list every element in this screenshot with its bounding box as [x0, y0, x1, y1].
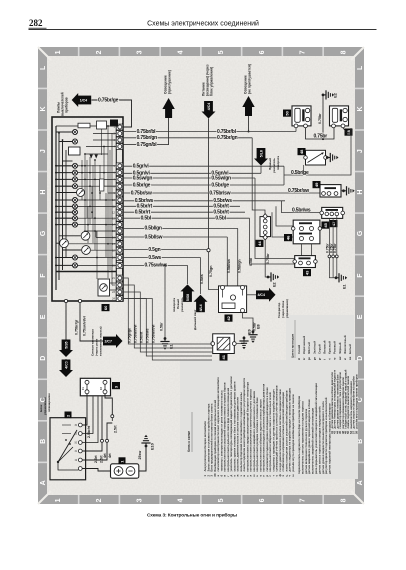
oil pressure tell-tale U43: [295, 256, 316, 268]
svg-text:поворота: поворота: [172, 298, 176, 312]
svg-text:58: 58: [354, 431, 358, 434]
tag 50: [283, 110, 291, 117]
pin strip header tag: [110, 120, 118, 127]
tag 1: [119, 457, 126, 464]
svg-text:8: 8: [340, 50, 347, 54]
connector arrow up C: [242, 96, 254, 116]
svg-text:H: H: [40, 190, 47, 195]
svg-text:0.75br: 0.75br: [314, 134, 328, 140]
svg-text:0.75br/sw: 0.75br/sw: [209, 190, 230, 196]
wire 0.75sw/rt/vi: [123, 285, 212, 348]
wire 0.75br/gr from cluster: [65, 303, 67, 340]
svg-text:43: 43: [304, 270, 309, 275]
dimmer rheostat U48: [306, 150, 326, 165]
ground E8b: [239, 337, 248, 350]
wire 0.5ws drop: [200, 258, 202, 295]
svg-text:4: 4: [177, 50, 184, 54]
svg-text:G: G: [357, 230, 364, 236]
svg-text:Синий: Синий: [297, 345, 301, 354]
tag 3: [112, 382, 120, 389]
svg-text:F: F: [357, 273, 364, 278]
wires 0.75br down from switches to E1: [329, 218, 336, 277]
svg-text:L: L: [357, 65, 364, 70]
svg-text:4/C4: 4/C4: [258, 293, 265, 297]
svg-text:1/C4: 1/C4: [80, 98, 87, 102]
svg-text:разъём жгута проводов панели п: разъём жгута проводов панели приборов: [354, 374, 358, 429]
svg-text:K: K: [40, 106, 47, 111]
svg-text:(приглушение): (приглушение): [168, 70, 172, 94]
svg-text:0.5sw/gn: 0.5sw/gn: [133, 175, 153, 181]
svg-text:5: 5: [218, 498, 225, 502]
ignition switch U2: [50, 418, 86, 480]
wire 0.5gr/vi: [123, 165, 284, 167]
resistor in cluster: [78, 123, 90, 128]
svg-text:приборов: приборов: [65, 97, 69, 113]
connector block in cluster: [97, 121, 107, 129]
svg-text:0.75br: 0.75br: [333, 243, 337, 253]
svg-text:0.75gn/bl: 0.75gn/bl: [137, 142, 158, 148]
ground E2 mid: [267, 272, 280, 281]
tag 43: [303, 269, 311, 276]
key to diagram legend: [180, 360, 358, 479]
svg-text:Белый: Белый: [348, 344, 352, 354]
brake fluid switch U47: [322, 207, 343, 218]
svg-text:A: A: [40, 480, 47, 485]
svg-text:0.75br: 0.75br: [318, 113, 322, 124]
ground E1 left: [160, 337, 169, 350]
instrument illumination lamp block U50: [292, 106, 311, 126]
wire 0.5bl/sw: [123, 236, 227, 238]
svg-text:Коричневый: Коричневый: [302, 336, 306, 354]
svg-text:6: 6: [259, 498, 266, 502]
svg-text:0.75rt/ws: 0.75rt/ws: [146, 328, 150, 343]
svg-text:регулятор яркости подсветки пр: регулятор яркости подсветки приборов и в…: [324, 397, 328, 474]
connector arrow down 4/C5: [59, 370, 73, 377]
tag 60: [102, 304, 110, 311]
wire 0.5gn/vi: [123, 172, 261, 174]
svg-text:6: 6: [259, 50, 266, 54]
svg-text:0.5br/ws: 0.5br/ws: [292, 208, 311, 214]
connector arrow right 4/C4 generator: [269, 288, 276, 302]
connector arrow up left-turn 5/S8: [181, 284, 195, 291]
wire 0.75rt/ws: [123, 299, 212, 357]
svg-text:B: B: [357, 439, 364, 444]
svg-text:0.75sw/rt/vi: 0.75sw/rt/vi: [134, 325, 138, 343]
svg-text:3: 3: [137, 50, 144, 54]
wire 0.5br/ws to switch 49b: [282, 201, 322, 213]
wire 0.5br/rt: [123, 211, 245, 213]
svg-text:F: F: [40, 273, 47, 278]
wire 0.5bl/sw drop to flasher: [226, 237, 228, 286]
wire 0.75br/sw: [123, 192, 321, 194]
svg-text:50: 50: [284, 110, 289, 115]
tag 2: [65, 412, 72, 419]
svg-text:поворота: поворота: [276, 156, 280, 170]
wire 0.75sw/rt/vi: [123, 299, 212, 361]
tag 41: [220, 353, 228, 360]
svg-text:60: 60: [103, 305, 108, 310]
connector arrow up A: [162, 98, 174, 118]
svg-text:2.5rt: 2.5rt: [113, 425, 117, 433]
svg-text:B: B: [40, 439, 47, 444]
svg-text:Лиловый: Лиловый: [323, 340, 327, 354]
svg-text:управления): управления): [285, 299, 289, 318]
wire drop to right turn arrow: [260, 166, 262, 174]
svg-text:Жёлтый: Жёлтый: [307, 342, 311, 355]
svg-text:0.5ws: 0.5ws: [200, 274, 204, 284]
svg-text:2.5br/rt: 2.5br/rt: [87, 425, 91, 438]
wire from arrow B down to flasher: [208, 119, 210, 249]
turn signal flasher relay U42: [219, 286, 247, 313]
svg-text:gn: gn: [312, 357, 316, 361]
svg-text:0.5bl/gn: 0.5bl/gn: [237, 259, 241, 273]
svg-text:E2: E2: [273, 282, 277, 287]
svg-text:0.5bl/gn: 0.5bl/gn: [145, 226, 162, 232]
svg-text:E1: E1: [343, 284, 347, 289]
instrument cluster box U60: [52, 117, 123, 301]
svg-text:E2: E2: [334, 93, 338, 98]
svg-text:Схемы электрических соединений: Схемы электрических соединений: [147, 20, 259, 28]
svg-text:E10: E10: [151, 443, 155, 450]
wire ignition to battery: [82, 469, 111, 472]
tag 47: [330, 220, 338, 227]
wire battery to ground E10 25sw: [139, 446, 146, 471]
tag 46: [284, 234, 292, 241]
svg-text:0.5ws: 0.5ws: [148, 255, 161, 261]
wire 0.75sw/ws: [123, 264, 188, 266]
svg-text:0.5br/ge: 0.5br/ge: [133, 182, 151, 188]
wire 0.5bl/gn drop to flasher: [237, 228, 239, 286]
wire 0.5rs/rt: [123, 292, 212, 352]
diagram border frame: [38, 47, 364, 504]
svg-text:блок управления): блок управления): [210, 67, 214, 96]
cluster internal wiring: [55, 126, 57, 290]
gauge: tachometer: [81, 231, 90, 240]
ground at U49b: [342, 186, 355, 195]
wire 0.75gr/ge: [123, 278, 212, 344]
svg-text:1: 1: [55, 50, 62, 54]
series resistor vertical: [100, 179, 104, 191]
svg-text:L: L: [40, 65, 47, 70]
svg-text:0.5gn: 0.5gn: [148, 247, 160, 253]
wire sender to ground E8b: [236, 336, 244, 344]
wire 0.5br/rt drops to handbrake switch: [276, 206, 297, 226]
svg-text:4: 4: [177, 498, 184, 502]
svg-text:0.5sw/gn: 0.5sw/gn: [211, 175, 231, 181]
ignition feed wires: [82, 397, 93, 434]
wire 0.5br/ge: [123, 184, 284, 186]
svg-text:0.5bl: 0.5bl: [215, 216, 226, 222]
ground E8: [248, 330, 257, 343]
svg-text:7: 7: [300, 498, 307, 502]
svg-text:датчик аварийного уровня тормо: датчик аварийного уровня тормозной жидко…: [307, 399, 311, 474]
svg-text:3: 3: [137, 498, 144, 502]
svg-text:выключатель аварийной световой: выключатель аварийной световой сигнализа…: [311, 408, 315, 474]
svg-text:46: 46: [285, 235, 290, 240]
tag 44: [256, 240, 264, 247]
svg-text:0.75br/gn: 0.75br/gn: [137, 135, 158, 141]
wire 0.75br joining lamp blocks: [306, 128, 335, 139]
svg-text:44: 44: [257, 241, 262, 246]
svg-text:0.75br/ge: 0.75br/ge: [98, 97, 119, 103]
svg-text:G: G: [40, 230, 47, 236]
svg-text:E: E: [357, 314, 364, 319]
svg-text:4/C5: 4/C5: [65, 361, 69, 368]
svg-text:2/C7: 2/C7: [105, 339, 112, 343]
warning lamps: [73, 130, 78, 135]
svg-text:0.75br/sw: 0.75br/sw: [131, 190, 152, 196]
connector arrow down B: [202, 112, 216, 119]
svg-text:25sw: 25sw: [138, 451, 142, 460]
cluster bottom pins: [64, 299, 67, 302]
svg-text:D: D: [40, 356, 47, 361]
wire 0.5br/rt: [123, 205, 240, 207]
svg-text:E9: E9: [248, 329, 252, 334]
svg-text:0.75sw/ws: 0.75sw/ws: [145, 263, 168, 269]
svg-text:J: J: [40, 149, 47, 153]
svg-text:0.75gn: 0.75gn: [209, 266, 213, 277]
connector 0.5gn/0.75gn: [209, 252, 221, 290]
svg-text:Чёрный: Чёрный: [338, 342, 342, 354]
side light block U49: [330, 106, 349, 126]
fuse box U3: [80, 378, 110, 396]
svg-text:Фиолетовый: Фиолетовый: [343, 335, 347, 354]
tail lamp switch U49b: [320, 185, 341, 197]
diode pair: [90, 155, 98, 159]
svg-text:топливного насоса): топливного насоса): [99, 326, 103, 356]
svg-text:Схема 3: Контрольные огни и пр: Схема 3: Контрольные огни и приборы: [147, 512, 237, 519]
svg-text:0.75br/bl: 0.75br/bl: [217, 129, 237, 135]
svg-text:0.5bl: 0.5bl: [141, 216, 152, 222]
svg-text:разъём жгута проводов комбинац: разъём жгута проводов комбинации приборо…: [291, 394, 295, 471]
svg-text:Цвета проводов: Цвета проводов: [291, 334, 295, 358]
wire 0.5bl drop: [250, 218, 295, 264]
wire 0.75br/gn: [123, 137, 252, 139]
svg-text:освещением: освещением: [47, 393, 51, 412]
svg-text:2: 2: [96, 50, 103, 54]
wire 0.5ws: [123, 257, 201, 259]
svg-text:48: 48: [299, 149, 304, 154]
wire 0.5bl/gn: [123, 227, 238, 229]
svg-text:Красный: Красный: [328, 341, 332, 354]
wire 0.5sw/gn: [123, 177, 255, 179]
svg-text:ge: ge: [307, 357, 311, 361]
svg-text:(не приглушается): (не приглушается): [248, 64, 252, 94]
wire 0.75sw/ws drop: [187, 265, 189, 284]
svg-text:2: 2: [96, 498, 103, 502]
wire fuse to ignition 2.5br/rt: [82, 394, 87, 425]
voltage stabilizer block with meter: [98, 279, 110, 296]
svg-text:2.5rt: 2.5rt: [94, 455, 98, 463]
svg-text:переключатель наружного света: переключатель наружного света фар на пан…: [297, 396, 301, 474]
svg-text:282: 282: [29, 18, 43, 28]
wire from U44 to ground E2 mid: [265, 240, 268, 277]
svg-text:Зелёный: Зелёный: [312, 341, 316, 354]
wire 0.5br/ge segment: [284, 128, 351, 175]
svg-text:0.75gr/ge: 0.75gr/ge: [128, 328, 132, 343]
connector arrow right 2/C7 tach: [116, 334, 123, 348]
wire 0.75br to E2: [322, 95, 324, 139]
wire 0.5br/ws: [123, 200, 285, 202]
svg-text:0.5br/ge: 0.5br/ge: [211, 182, 229, 188]
connector arrow 1/C4: [72, 93, 79, 107]
wire from arrow A to pin: [123, 118, 169, 145]
svg-text:45: 45: [323, 222, 328, 227]
svg-text:7: 7: [300, 50, 307, 54]
wires U46 to U43: [301, 244, 303, 256]
svg-text:E8: E8: [257, 324, 261, 329]
svg-text:датчик износа тормозных колодо: датчик износа тормозных колодок передних…: [317, 405, 321, 474]
wire 0.75sw/vi from cluster: [80, 303, 107, 341]
svg-text:0.5rs/rt: 0.5rs/rt: [140, 331, 144, 343]
wire 0.75br/bl: [123, 131, 296, 133]
wire colour code table: [286, 315, 354, 363]
svg-text:4rt: 4rt: [108, 453, 112, 458]
svg-text:0.75br/sw: 0.75br/sw: [288, 188, 309, 194]
voltage stabilizer: [69, 147, 81, 155]
svg-text:0.5br: 0.5br: [159, 322, 163, 331]
svg-text:0.75br: 0.75br: [266, 253, 270, 264]
wire 0.5bl: [123, 217, 250, 219]
wire 0.5gr/vi to rheostat area: [283, 166, 285, 175]
tag 58: [345, 129, 353, 136]
svg-text:D: D: [357, 356, 364, 361]
svg-text:0.5gr/vi: 0.5gr/vi: [133, 164, 150, 170]
svg-text:J: J: [357, 149, 364, 153]
wire 0.75br/ge: [92, 100, 132, 123]
svg-text:5: 5: [218, 50, 225, 54]
svg-text:1: 1: [55, 498, 62, 502]
tag 42: [225, 315, 233, 322]
wire flasher to ground E8: [243, 313, 254, 332]
svg-text:0.75sw/vi/vi: 0.75sw/vi/vi: [83, 316, 87, 336]
handbrake switch U46: [293, 220, 320, 244]
svg-text:реле-прерыватель указателей по: реле-прерыватель указателей поворота и а…: [314, 383, 318, 474]
ground E10: [141, 435, 150, 448]
wire riser to lamp block U50: [295, 128, 297, 132]
ground E1 right: [335, 273, 348, 282]
cluster connector pin strip: [115, 123, 117, 301]
ground at rheostat: [326, 153, 339, 162]
header rule: [29, 29, 377, 30]
wire 0.5gn: [123, 249, 207, 251]
connector arrow down 5/S5: [59, 350, 73, 357]
svg-text:4/L4: 4/L4: [199, 304, 203, 311]
svg-text:E: E: [40, 314, 47, 319]
svg-text:0.5bl/sw: 0.5bl/sw: [145, 234, 163, 240]
gauge: speedometer: [60, 239, 69, 248]
svg-text:Серый: Серый: [317, 344, 321, 354]
tag 45: [322, 222, 330, 229]
tag 48: [298, 148, 306, 155]
svg-text:49: 49: [314, 182, 319, 187]
svg-text:8: 8: [340, 498, 347, 502]
wire 0.5br/ge riser: [283, 175, 285, 185]
connector arrow up high-beam 4/L4: [194, 295, 208, 302]
svg-text:0.75br/gr: 0.75br/gr: [74, 319, 78, 335]
svg-text:H: H: [357, 190, 364, 195]
svg-text:K: K: [357, 106, 364, 111]
svg-text:0.75br/gn: 0.75br/gn: [217, 135, 238, 141]
svg-text:41: 41: [221, 354, 226, 359]
parking light switch U44: [260, 217, 271, 237]
connector arrow down right-turn 5/L8: [254, 159, 268, 166]
svg-text:0.5bl: 0.5bl: [249, 258, 253, 266]
wire drop 0.5sw/gn: [255, 178, 295, 259]
wire to ground E1 left: [164, 265, 166, 338]
battery U1: [111, 464, 139, 478]
oil pressure sender U41: [213, 334, 235, 354]
tag 49: [313, 181, 321, 188]
svg-text:5/L8: 5/L8: [260, 150, 264, 157]
svg-text:4rt: 4rt: [103, 453, 107, 458]
svg-text:4/C4: 4/C4: [207, 103, 211, 110]
switch contacts: [57, 461, 59, 463]
svg-text:5/S5: 5/S5: [65, 341, 69, 348]
svg-text:0.5bl/sw: 0.5bl/sw: [227, 259, 231, 273]
gauge: clock: [77, 189, 85, 197]
gauge: fuel: [82, 246, 91, 255]
svg-text:0.5br/ge: 0.5br/ge: [291, 170, 309, 176]
svg-text:0.75sw/rt/vi: 0.75sw/rt/vi: [152, 325, 156, 343]
svg-text:Ключ к схеме: Ключ к схеме: [187, 431, 191, 452]
svg-text:5/S8: 5/S8: [186, 294, 190, 301]
svg-text:0.75br/bl: 0.75br/bl: [137, 129, 157, 135]
svg-text:Розовый: Розовый: [333, 341, 337, 354]
svg-text:42: 42: [226, 315, 231, 320]
ground E2 top: [322, 90, 335, 99]
wire feed to parking switch U44: [252, 138, 265, 217]
svg-text:A: A: [357, 480, 364, 485]
